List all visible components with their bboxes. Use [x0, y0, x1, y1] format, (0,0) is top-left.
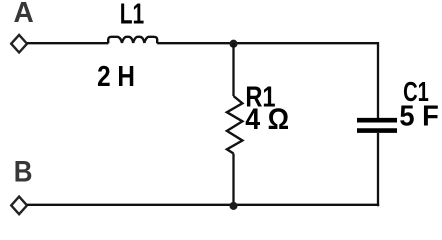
resistor R1 — [227, 96, 243, 154]
wire right branch upper lead — [377, 42, 379, 118]
svg-text:L1: L1 — [120, 0, 145, 30]
capacitor C1 top plate — [357, 118, 397, 123]
wire right branch lower lead — [377, 133, 379, 206]
svg-text:2 H: 2 H — [97, 60, 135, 92]
svg-text:5 F: 5 F — [399, 100, 438, 132]
capacitor C1 bottom plate — [357, 128, 397, 133]
junction dot top node — [229, 40, 237, 48]
inductor L1 — [108, 37, 157, 44]
terminal A — [11, 35, 27, 53]
terminal B — [11, 197, 27, 215]
wire middle branch upper lead — [232, 43, 234, 96]
svg-text:B: B — [14, 155, 33, 188]
svg-text:4 Ω: 4 Ω — [245, 103, 289, 135]
wire middle branch lower lead — [232, 154, 234, 206]
wire top-middle (inductor to right corner) — [157, 42, 378, 44]
wire top-left (A to inductor) — [27, 42, 108, 44]
svg-text:A: A — [13, 0, 33, 29]
wire bottom (B to bottom-right corner) — [27, 204, 379, 206]
junction dot bottom node — [229, 202, 237, 210]
